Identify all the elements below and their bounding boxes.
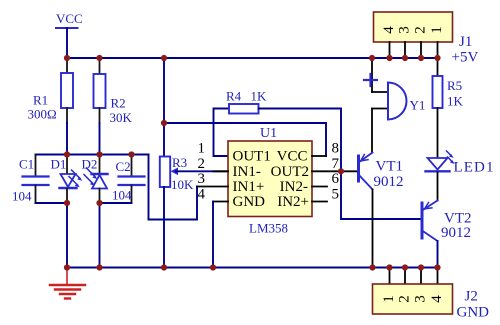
svg-text:5: 5 bbox=[332, 186, 340, 202]
svg-text:10K: 10K bbox=[171, 177, 194, 192]
svg-text:9012: 9012 bbox=[441, 225, 471, 241]
capacitor C2 bbox=[112, 155, 145, 204]
diode D1 (IR LED) bbox=[51, 155, 83, 268]
svg-text:IN2+: IN2+ bbox=[277, 194, 309, 210]
svg-text:IN1+: IN1+ bbox=[233, 179, 265, 195]
svg-text:R2: R2 bbox=[111, 96, 126, 111]
wire sensor signal to pin3 bbox=[149, 155, 198, 220]
svg-text:104: 104 bbox=[112, 188, 132, 203]
svg-text:1K: 1K bbox=[447, 94, 464, 109]
node pin7 / R4 / VT1 base bbox=[338, 168, 344, 174]
resistor R1 bbox=[28, 58, 74, 155]
resistor R5 bbox=[433, 58, 464, 158]
svg-text:D2: D2 bbox=[82, 157, 98, 172]
transistor VT2 9012 bbox=[422, 201, 472, 242]
node bus-J2 pin2 bbox=[402, 264, 408, 270]
wire pin7 net to VT2 base bbox=[341, 171, 421, 219]
svg-text:2: 2 bbox=[396, 295, 412, 303]
node D2/C2 bottom bbox=[96, 200, 102, 206]
svg-text:4: 4 bbox=[198, 186, 206, 202]
wire ground bus bbox=[67, 267, 438, 269]
node bus-D2 bbox=[96, 264, 102, 270]
diode D2 (photodiode) bbox=[82, 155, 108, 268]
svg-text:4: 4 bbox=[429, 295, 445, 303]
svg-text:LM358: LM358 bbox=[249, 221, 288, 236]
svg-text:2: 2 bbox=[412, 26, 428, 34]
wire VT2 collector to bus bbox=[437, 241, 439, 268]
resistor R4 bbox=[214, 89, 342, 172]
node rail-J1 pin2 bbox=[418, 55, 424, 61]
svg-text:VCC: VCC bbox=[277, 149, 308, 165]
node rail-Y1 bbox=[369, 55, 375, 61]
svg-text:7: 7 bbox=[332, 156, 340, 172]
node bus-VT1 collector bbox=[369, 264, 375, 270]
svg-text:104: 104 bbox=[12, 189, 32, 204]
J1 pin 3 wire bbox=[404, 42, 406, 58]
svg-text:J2: J2 bbox=[465, 289, 478, 305]
svg-text:C2: C2 bbox=[116, 159, 131, 174]
transistor VT1 9012 bbox=[341, 153, 404, 191]
resistor R2 bbox=[94, 58, 133, 155]
J1 pin 4 wire bbox=[389, 42, 391, 58]
wire sensor-top horizontal bbox=[36, 154, 149, 156]
svg-text:OUT1: OUT1 bbox=[233, 149, 271, 165]
svg-text:IN2-: IN2- bbox=[280, 179, 308, 195]
node R3 top / VCC branch bbox=[161, 120, 167, 126]
wire top VCC rail bbox=[67, 57, 438, 59]
svg-text:VCC: VCC bbox=[56, 11, 83, 26]
J2 pin 1 wire bbox=[389, 268, 391, 285]
wire C2 bottom to D2 anode bbox=[100, 202, 132, 204]
node rail-J1 pin1 / R5 bbox=[434, 55, 440, 61]
node D1 anode bbox=[64, 151, 70, 157]
svg-text:8: 8 bbox=[332, 141, 340, 157]
wire pin4 to ground bus bbox=[212, 202, 214, 268]
svg-text:3: 3 bbox=[198, 171, 206, 187]
svg-text:GND: GND bbox=[457, 305, 490, 321]
J2 pin 2 wire bbox=[404, 268, 406, 285]
svg-text:R4: R4 bbox=[226, 89, 242, 104]
svg-text:GND: GND bbox=[233, 194, 266, 210]
svg-text:300Ω: 300Ω bbox=[28, 107, 57, 122]
svg-text:1: 1 bbox=[198, 141, 206, 157]
J2 pin 4 wire bbox=[437, 268, 439, 285]
buzzer Y1 bbox=[364, 58, 425, 153]
wire R3 wiper to pin2 bbox=[176, 170, 228, 172]
svg-text:3: 3 bbox=[412, 295, 428, 303]
svg-text:R1: R1 bbox=[33, 93, 48, 108]
node rail-J1 pin4 bbox=[386, 55, 392, 61]
node rail-R2 bbox=[96, 55, 102, 61]
node C2 top bbox=[128, 151, 134, 157]
power symbol VCC bbox=[56, 11, 83, 58]
svg-text:R5: R5 bbox=[447, 78, 462, 93]
node bus-J2 pin4 / VT2 collector bbox=[434, 264, 440, 270]
capacitor C1 bbox=[12, 155, 49, 204]
node C1/D1 bbox=[64, 200, 70, 206]
svg-text:1: 1 bbox=[429, 26, 445, 34]
svg-text:D1: D1 bbox=[51, 157, 67, 172]
svg-text:3: 3 bbox=[396, 26, 412, 34]
svg-text:1K: 1K bbox=[251, 89, 268, 104]
svg-text:OUT2: OUT2 bbox=[271, 164, 309, 180]
J1 pin 1 wire bbox=[437, 42, 439, 58]
node rail-R1 bbox=[64, 55, 70, 61]
svg-text:+5V: +5V bbox=[452, 50, 479, 66]
svg-text:VT1: VT1 bbox=[376, 159, 404, 175]
wire C1 bottom to D1 cathode bbox=[36, 202, 68, 204]
J2 pin 3 wire bbox=[420, 268, 422, 285]
J1 pin 2 wire bbox=[420, 42, 422, 58]
svg-text:IN1-: IN1- bbox=[233, 164, 261, 180]
wire VCC branch to pin8 bbox=[164, 123, 326, 156]
node bus-R3 bbox=[161, 264, 167, 270]
svg-text:2: 2 bbox=[198, 156, 206, 172]
svg-text:U1: U1 bbox=[260, 126, 277, 141]
svg-text:Y1: Y1 bbox=[410, 98, 426, 113]
svg-text:R3: R3 bbox=[172, 155, 187, 170]
svg-text:4: 4 bbox=[381, 26, 397, 34]
svg-text:LED1: LED1 bbox=[454, 160, 495, 176]
connector J2 bbox=[373, 268, 490, 321]
node bus-J2 pin1 bbox=[386, 264, 392, 270]
svg-text:30K: 30K bbox=[110, 110, 133, 125]
connector J1 bbox=[374, 12, 479, 66]
svg-text:6: 6 bbox=[332, 171, 340, 187]
wire LED1 cathode to VT2 emitter bbox=[437, 173, 439, 201]
node pin4-bus bbox=[210, 264, 216, 270]
node rail-J1 pin3 bbox=[402, 55, 408, 61]
LED LED1 bbox=[426, 151, 495, 176]
svg-text:C1: C1 bbox=[19, 157, 34, 172]
node bus-ground bbox=[64, 264, 70, 270]
node rail-R3 bbox=[161, 55, 167, 61]
svg-text:J1: J1 bbox=[459, 34, 472, 50]
svg-text:1: 1 bbox=[381, 295, 397, 303]
potentiometer R3 bbox=[160, 58, 194, 268]
svg-text:9012: 9012 bbox=[374, 174, 404, 190]
ground bbox=[50, 268, 85, 299]
node bus-J2 pin3 bbox=[418, 264, 424, 270]
op-amp U1 LM358 bbox=[197, 126, 341, 236]
wire VT1 collector to bus bbox=[372, 190, 374, 268]
node D2 cathode bbox=[96, 151, 102, 157]
